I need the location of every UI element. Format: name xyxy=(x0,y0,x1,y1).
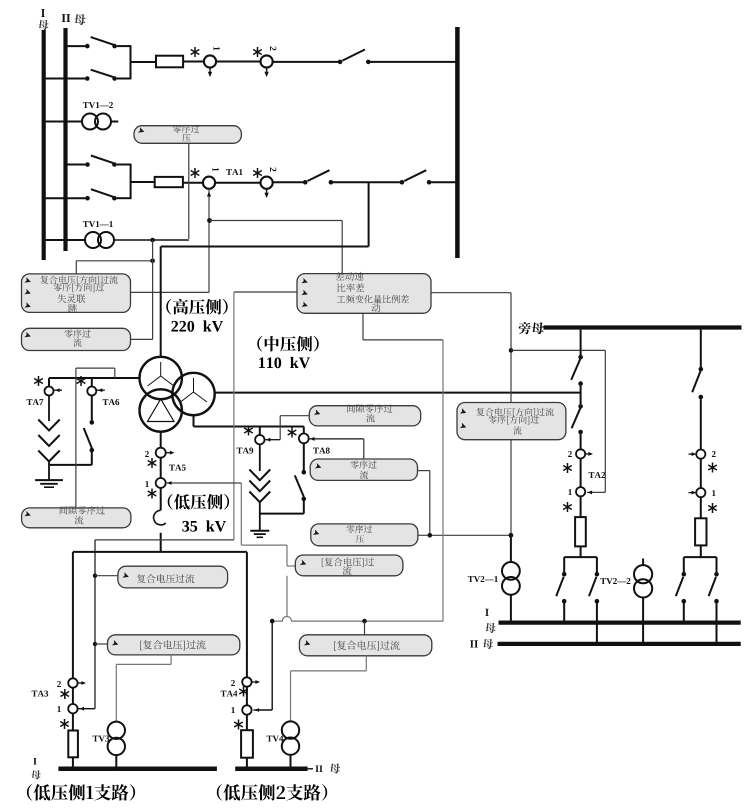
label TV2-1 xyxy=(468,576,498,582)
wire to 220kV bus xyxy=(370,61,455,63)
wire junction riser xyxy=(152,240,154,339)
label 母 (right bus II) xyxy=(483,639,494,649)
CT TA3 core1 xyxy=(68,704,77,713)
text 间隙零序过 xyxy=(347,404,392,413)
label 母 (branch1 bus) xyxy=(31,770,41,779)
wire box12 right output xyxy=(431,292,511,294)
asterisk xyxy=(194,47,196,57)
surge gap (arrester) HV neutral xyxy=(48,396,50,422)
wire 220kV drop to transformer xyxy=(368,182,370,246)
CT TA1 core2 xyxy=(261,177,273,189)
breaker feederB xyxy=(695,518,706,545)
wire row1 from bus II xyxy=(66,45,86,47)
disconnect blade row2 right1 xyxy=(308,170,330,181)
wire xyxy=(246,715,248,731)
protection box 复合电压方向过流/零序方向过流 (110kV) xyxy=(457,403,566,440)
text [复合电压]过 xyxy=(322,558,374,568)
CT row1 core2 lead xyxy=(266,68,268,76)
asterisk xyxy=(243,687,245,697)
label TV4 xyxy=(267,736,284,742)
CT TA1 core1 xyxy=(203,177,215,189)
wire box9 to TV4 xyxy=(365,656,367,671)
label 1 (TA5) xyxy=(146,481,149,487)
label TA1 xyxy=(226,169,242,175)
text 零序过 xyxy=(173,125,199,133)
text 压 xyxy=(356,535,364,543)
wire box13 to TV1-1 xyxy=(188,143,190,239)
asterisk xyxy=(567,463,569,473)
protection box 间隙零序过流 (110kV gap) xyxy=(309,406,420,426)
label 1 (TA4) xyxy=(232,707,235,713)
asterisk xyxy=(151,489,153,499)
selector feederA xyxy=(564,556,597,558)
wire TA9 to box4 xyxy=(279,416,281,440)
wire box3 bottom to TV2-1 xyxy=(510,440,512,536)
breaker branch2 xyxy=(241,730,253,758)
wire row2 from bus II xyxy=(66,164,86,166)
label 母 (bus II) xyxy=(74,14,86,25)
label I (branch1 bus) xyxy=(33,758,36,765)
CT TA9 xyxy=(259,427,261,436)
disconnect blade feederA upper xyxy=(571,359,580,380)
protection box 零序过流 (110kV) xyxy=(310,459,417,480)
wire box12 bottom output xyxy=(362,313,364,340)
wire diff line horizontal y621 with hook xyxy=(272,617,443,622)
label 2 (TA4) xyxy=(231,680,235,686)
disconnect switch QS blade row1a xyxy=(91,37,114,45)
text 流 xyxy=(75,516,84,525)
wire box12 left output xyxy=(234,291,297,293)
220kV substation bus xyxy=(455,27,460,258)
CT TA3 core2 xyxy=(68,678,77,687)
label TA4 xyxy=(221,691,238,697)
voltage transformer TV1-2 xyxy=(82,114,98,130)
wire box11 right to TV2-1 junction xyxy=(418,534,511,536)
text 流 xyxy=(360,471,368,479)
wire xyxy=(72,757,74,769)
label 2 rotated xyxy=(270,168,276,172)
label TV3 xyxy=(93,736,110,742)
text 失灵联 xyxy=(57,294,85,303)
branch2 feeder xyxy=(246,552,248,677)
label 2 (feederB) xyxy=(712,451,716,457)
asterisk xyxy=(151,458,153,468)
asterisk xyxy=(80,376,82,386)
ground MV neutral xyxy=(250,530,269,532)
wire xyxy=(333,181,400,183)
disconnect blade feederA lower xyxy=(572,408,581,428)
wire xyxy=(273,61,338,63)
stub xyxy=(111,121,118,123)
wire box1 top riser xyxy=(75,261,77,274)
wire to TA4 core1 xyxy=(271,621,273,710)
merge xyxy=(130,164,132,200)
transformer T1 HV winding (wye) xyxy=(140,357,182,399)
wire TV1-1 secondary xyxy=(114,239,189,241)
wire box1 right to TA1 xyxy=(131,291,210,293)
TV2-2 xyxy=(642,559,644,566)
text 流 xyxy=(73,338,81,346)
label 1 rotated xyxy=(213,168,219,172)
wire box3 top riser xyxy=(510,350,512,402)
text 间隙零序过 xyxy=(60,506,105,515)
wire xyxy=(216,61,260,63)
wire xyxy=(72,688,74,704)
label 1 (TA3) xyxy=(58,706,61,712)
label TV1-2 xyxy=(83,102,113,108)
label (低压侧1支路) xyxy=(27,784,135,801)
protection box [复合电压]过流 (支路1) xyxy=(108,635,240,655)
CT TA2 core1 xyxy=(576,487,585,496)
TV4 xyxy=(282,721,299,738)
text [复合电压]过流 xyxy=(334,641,400,651)
wire TV1-1 xyxy=(44,239,85,241)
wire box5 right output xyxy=(418,470,430,472)
protection box [复合电压]过流 (支路2) xyxy=(299,635,431,656)
ground HV neutral xyxy=(35,479,63,481)
wire MV neutral xyxy=(193,415,195,426)
wire xyxy=(700,459,702,488)
wire HV neutral xyxy=(49,377,140,379)
CT TA8 xyxy=(303,427,305,434)
grounding switch TA8 branch xyxy=(303,443,305,470)
wire box6 lower stub xyxy=(286,576,288,617)
protection box 零序过压 (220kV PT) xyxy=(134,126,241,144)
text 比率差 xyxy=(337,283,364,292)
label I (bus I) xyxy=(41,9,45,17)
CT TA5 core2 xyxy=(156,448,166,458)
text 复合电压[方向]过流 xyxy=(476,408,553,417)
text 流 xyxy=(343,566,352,575)
grounding switch TA6 branch xyxy=(91,396,93,421)
label TA3 xyxy=(32,691,49,697)
text 零序[方向]过 xyxy=(54,283,105,292)
wire to box7 xyxy=(95,575,118,577)
transformer T1 LV winding (delta) xyxy=(140,389,182,431)
protection box 复合电压方向过流/零序方向过流/失灵联跳 xyxy=(22,274,131,313)
CT feederB core1 xyxy=(696,488,705,497)
CT TA5 core1 xyxy=(156,478,166,488)
asterisk xyxy=(257,168,259,178)
breaker feederA xyxy=(575,517,586,546)
wire 110kV line xyxy=(215,392,581,394)
wire xyxy=(700,497,702,518)
text 流 xyxy=(513,426,521,434)
bus I (left 220kV bus) xyxy=(42,30,46,260)
wire xyxy=(580,459,582,488)
blade xyxy=(556,577,564,596)
label TA9 xyxy=(237,448,254,454)
label 220 kV xyxy=(171,320,223,331)
label 1 (feederB) xyxy=(712,490,715,496)
label I (right bus) xyxy=(485,609,489,616)
CT TA6 xyxy=(91,378,93,387)
wire box2 right xyxy=(131,338,153,340)
text 差动速 xyxy=(336,272,364,281)
disconnect blade feederB xyxy=(692,371,700,392)
branch1 feeder xyxy=(72,552,74,678)
wire neutral to box10 xyxy=(75,368,77,507)
disconnect switch blade row1 right xyxy=(342,50,365,61)
breaker row2 xyxy=(155,177,183,187)
bypass bus 旁母 xyxy=(544,325,742,329)
asterisk xyxy=(712,503,714,513)
right 110kV bus II xyxy=(498,642,741,646)
wire TA1 to diff box xyxy=(210,220,343,222)
label 110 kV xyxy=(259,357,310,368)
wire xyxy=(183,182,203,184)
label 2 (TA3) xyxy=(57,681,61,687)
wire LV drop xyxy=(160,432,162,448)
label 旁母 xyxy=(519,322,544,334)
asterisk xyxy=(567,502,569,512)
label TV2-2 xyxy=(600,578,630,584)
text 复合电压过流 xyxy=(137,574,194,583)
CT TA1 core2 lead xyxy=(266,189,268,196)
protection box 零序过压 (110kV) xyxy=(311,524,418,546)
CT row1 core1 xyxy=(204,55,216,67)
wire TA5 core1 to box6 xyxy=(241,544,287,546)
text 动 xyxy=(372,304,381,313)
right 110kV bus I xyxy=(499,620,741,624)
CT TA4 core1 xyxy=(242,705,251,714)
selector feederB xyxy=(684,556,717,558)
text 跳 xyxy=(68,304,77,313)
asterisk xyxy=(291,428,293,438)
label (高压侧) xyxy=(166,299,227,315)
text 复合电压[方向]过流 xyxy=(40,276,117,285)
transformer T1 MV winding (wye) xyxy=(172,373,214,415)
disconnect blade row2b xyxy=(91,189,113,197)
wire row1 lower from bus I xyxy=(44,78,85,80)
bus II (left 220kV bus) xyxy=(63,28,67,251)
label TV1-1 xyxy=(83,221,113,227)
label II (right bus) xyxy=(470,640,478,647)
voltage transformer TV1-1 xyxy=(85,232,101,248)
label II (branch2 bus) xyxy=(315,766,322,773)
wire to box9 top xyxy=(364,621,366,635)
wire box8 to TV3 xyxy=(170,655,172,665)
label 2 rotated xyxy=(270,47,276,51)
asterisk xyxy=(64,719,66,729)
CT TA2 core2 xyxy=(576,449,585,458)
text 零序过 xyxy=(346,525,372,533)
wire to 220kV bus xyxy=(431,181,455,183)
asterisk xyxy=(248,426,250,436)
label 35 kV xyxy=(182,520,226,531)
asterisk xyxy=(194,168,196,178)
wire xyxy=(72,713,74,730)
wire + crossing hook xyxy=(160,488,162,510)
disconnect blade row2 right2 xyxy=(404,170,426,181)
text 流 xyxy=(366,414,375,423)
text [复合电压]过流 xyxy=(140,640,206,650)
text 零序[方向]过 xyxy=(489,415,540,424)
wire TA8 to box5 xyxy=(363,439,365,459)
wire TV1-2 xyxy=(44,121,82,123)
label 2 (TA5) xyxy=(145,451,149,457)
label (低压侧2支路) xyxy=(217,784,327,801)
wire xyxy=(246,758,248,769)
breaker row1 xyxy=(156,56,183,68)
text 零序过 xyxy=(64,329,90,337)
label TA2 xyxy=(589,472,606,478)
label 2 (TA2) xyxy=(568,451,572,457)
wire TA2 core1 riser xyxy=(511,349,605,351)
protection box 零序过流 (220kV) xyxy=(22,328,131,350)
asterisk xyxy=(712,463,714,473)
wire xyxy=(580,496,582,517)
label 母 (branch2 bus) xyxy=(330,763,341,773)
wire xyxy=(160,458,162,479)
protection box 间隙零序过流 (220kV gap) xyxy=(22,508,131,528)
label TA8 xyxy=(313,448,330,454)
label 1 (TA2) xyxy=(569,489,572,495)
wire TA1 core1 secondary xyxy=(208,189,210,292)
protection box 复合电压过流 xyxy=(118,566,228,588)
wire left protection riser xyxy=(95,539,234,541)
asterisk xyxy=(238,720,240,730)
wire xyxy=(246,687,248,706)
protection box [复合电压]过流 (35kV) xyxy=(295,555,403,576)
label II (bus II) xyxy=(62,14,71,22)
feeder A from bypass bus xyxy=(580,330,582,355)
branch2 bus xyxy=(235,767,307,772)
wire xyxy=(183,61,204,63)
asterisk xyxy=(257,47,259,57)
label TA5 xyxy=(169,465,186,471)
wire xyxy=(273,181,303,183)
asterisk xyxy=(38,376,40,386)
CT row1 core2 xyxy=(261,55,273,67)
label TA7 xyxy=(27,399,44,405)
branch1 bus xyxy=(58,767,217,772)
text 零序过 xyxy=(350,460,376,468)
TV2-1 xyxy=(510,535,512,562)
text 工频变化量比例差 xyxy=(337,295,409,304)
label TA6 xyxy=(103,399,120,405)
blade xyxy=(676,577,684,596)
wire to box8 xyxy=(95,643,108,645)
label 1 rotated xyxy=(214,47,220,51)
label 母 (bus I) xyxy=(38,20,49,30)
wire row2 lower from bus I xyxy=(44,197,86,199)
CT TA7 xyxy=(48,378,50,387)
CT row1 core1 lead xyxy=(209,68,211,76)
TV3 xyxy=(108,722,125,739)
wire xyxy=(215,182,260,184)
35kV distribution wire xyxy=(73,551,247,553)
disconnect switch blade row1b xyxy=(91,70,114,77)
disconnect blade row2a xyxy=(91,156,113,164)
label 母 (right bus I) xyxy=(485,623,496,633)
CT TA4 core2 xyxy=(242,677,251,686)
breaker branch1 xyxy=(68,731,78,758)
wire merge row1 xyxy=(130,45,132,79)
text 压 xyxy=(182,134,190,142)
feeder B from bypass bus xyxy=(700,330,702,367)
label (低压侧) xyxy=(168,494,229,510)
CT feederB core2 xyxy=(696,450,705,459)
protection box 差动速断/比率差动/工频变化量比例差动 xyxy=(297,274,431,314)
surge gap MV neutral xyxy=(259,444,261,471)
label (中压侧) xyxy=(257,336,318,352)
asterisk xyxy=(64,689,66,699)
